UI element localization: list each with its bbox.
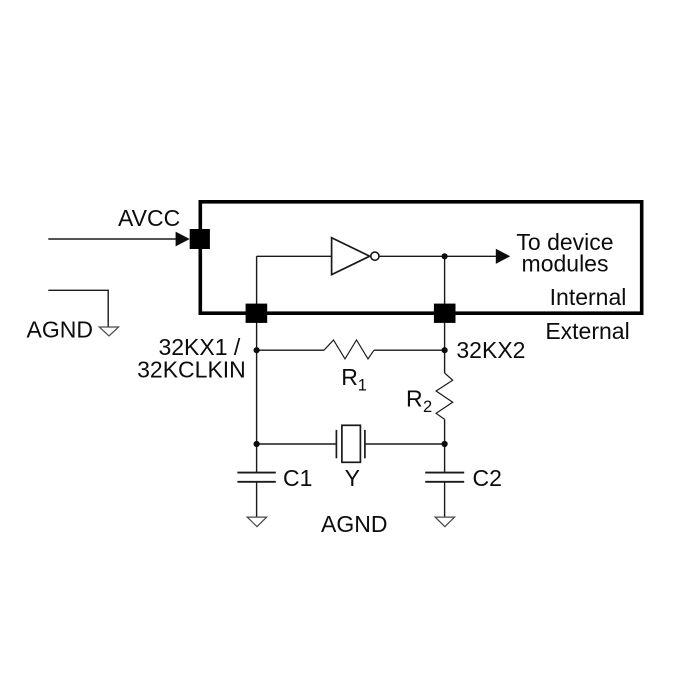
svg-text:AGND: AGND — [321, 511, 387, 537]
svg-text:AVCC: AVCC — [118, 205, 180, 231]
svg-text:Internal: Internal — [550, 284, 627, 310]
svg-text:AGND: AGND — [27, 317, 93, 343]
svg-text:C1: C1 — [283, 465, 312, 491]
svg-text:R: R — [341, 364, 358, 390]
svg-text:modules: modules — [522, 251, 609, 277]
svg-text:32KX2: 32KX2 — [456, 337, 525, 363]
svg-text:C2: C2 — [473, 465, 502, 491]
svg-text:Y: Y — [345, 465, 360, 491]
svg-text:32KCLKIN: 32KCLKIN — [137, 357, 246, 383]
svg-text:External: External — [545, 318, 629, 344]
svg-text:R: R — [406, 386, 423, 412]
svg-text:2: 2 — [423, 398, 432, 416]
svg-text:1: 1 — [358, 377, 367, 395]
